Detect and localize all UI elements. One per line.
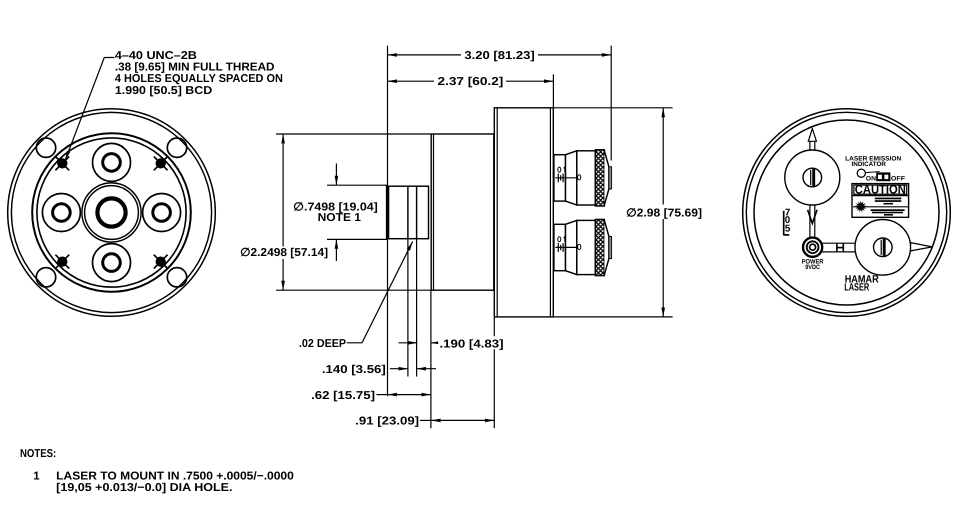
svg-text:[19,05 +0.013/−0.0] DIA HOLE.: [19,05 +0.013/−0.0] DIA HOLE.: [56, 482, 232, 494]
M1 tip: [609, 167, 612, 189]
counterbored hole D3 outer: [42, 194, 80, 232]
extension line housing diameter bottom: [553, 316, 672, 318]
micrometer M2: [554, 219, 612, 275]
counterbored hole D1 outer: [93, 143, 131, 181]
pilot groove left edge: [407, 186, 409, 239]
caution label box: [852, 184, 909, 218]
micrometer M1: [554, 150, 612, 206]
dimension .140 arrows: [390, 368, 408, 370]
dimension 2.37 line: [388, 80, 554, 82]
svg-text:.190 [4.83]: .190 [4.83]: [440, 338, 504, 350]
dimension dia 2.98 line: [662, 108, 664, 317]
mount cylinder outline: [431, 134, 494, 290]
extension line groove left: [407, 239, 409, 377]
flange outer circle inner line: [11, 112, 211, 312]
svg-text:1.990 [50.5] BCD: 1.990 [50.5] BCD: [115, 85, 212, 97]
extension line mount diameter top: [276, 133, 431, 135]
tapped hole 4-40 T3: [55, 255, 69, 269]
extension line housing right face: [552, 74, 554, 108]
svg-text:9VDC: 9VDC: [805, 264, 820, 271]
svg-text:.140 [3.56]: .140 [3.56]: [322, 364, 386, 376]
dimension .91 line: [420, 419, 431, 421]
M1 stem: [554, 155, 566, 201]
clearance hole E3: [36, 268, 55, 287]
flange outer circle: [8, 109, 216, 317]
center bore thick ring: [97, 198, 125, 226]
svg-text:1: 1: [33, 471, 40, 483]
dimension dia 2.2498 line: [282, 134, 284, 290]
extension line pilot left face: [387, 46, 389, 187]
extension line knob tip: [610, 46, 612, 161]
clearance hole E4: [167, 268, 186, 287]
laser emission indicator LED: [857, 169, 865, 177]
letter V marker: [808, 210, 818, 224]
M2 barrel digits 0 1: [558, 237, 565, 242]
model marking 705 bracket: [784, 211, 790, 236]
counterbored hole D4 outer: [143, 194, 181, 232]
rear knob upper (vertical adjuster): [785, 150, 840, 205]
M1 end cap: [604, 151, 609, 205]
counterbored hole D4 inner: [153, 204, 171, 222]
clearance hole E1: [36, 138, 55, 157]
letter H marker: [837, 243, 843, 252]
extension line housing diameter top: [553, 107, 672, 109]
M2 graduation ticks: [557, 243, 559, 252]
mount cylinder face line: [433, 134, 435, 290]
pilot shaft left face thick edge: [386, 186, 389, 239]
rear knob lower (horizontal adjuster): [855, 220, 911, 276]
svg-text:INDICATOR: INDICATOR: [852, 161, 887, 168]
center bore chamfer circle: [85, 186, 139, 240]
svg-text:.38 [9.65] MIN FULL THREAD: .38 [9.65] MIN FULL THREAD: [115, 62, 275, 74]
main housing outline: [494, 108, 553, 317]
M2 thimble digit 0: [578, 244, 581, 249]
left view: mount flange front: [8, 109, 216, 317]
counterbored hole D3 inner: [53, 204, 71, 222]
extension line groove right: [416, 239, 418, 377]
M1 barrel digits 0 1: [558, 167, 565, 172]
dimension dia .7498 arrows: [335, 164, 337, 186]
M1 knurled ratchet: [595, 150, 604, 206]
lower knob slot: [880, 240, 882, 255]
side view: laser body section: [387, 108, 554, 317]
LED pointer line: [865, 172, 879, 173]
svg-text:.62 [15.75]: .62 [15.75]: [311, 390, 375, 402]
dimension .190 text: [438, 336, 506, 349]
svg-text:NOTE 1: NOTE 1: [318, 212, 362, 224]
svg-text:LASER: LASER: [844, 281, 869, 293]
dimension .62 line: [377, 394, 388, 396]
M2 knurled ratchet: [595, 219, 604, 275]
vertical adjust arrow up shaft: [810, 141, 815, 151]
extension line pilot diameter bottom: [327, 238, 388, 240]
pilot shaft outline: [387, 186, 429, 239]
body recess circle: [37, 138, 186, 287]
M2 end cap: [604, 221, 609, 275]
leader line to tapped hole T1: [65, 58, 114, 161]
M1 transition: [566, 151, 577, 205]
pilot groove right edge: [416, 186, 418, 239]
extension line housing left face: [493, 317, 495, 428]
vertical adjust arrowhead: [808, 129, 816, 142]
counterbored hole D1 inner: [103, 154, 121, 172]
lower knob screw circle: [874, 238, 893, 257]
svg-text:.91 [23.09]: .91 [23.09]: [355, 416, 419, 428]
caution starburst: [855, 201, 867, 213]
M1 thimble digit 0: [578, 175, 581, 180]
svg-text:4–40 UNC–2B: 4–40 UNC–2B: [115, 50, 197, 62]
svg-text:NOTES:: NOTES:: [20, 448, 56, 460]
upper knob slot: [810, 170, 812, 185]
svg-text:CAUTION: CAUTION: [855, 182, 906, 196]
rear outer circle: [743, 109, 951, 317]
caution title box: [854, 185, 907, 194]
rear outer circle inner line: [746, 112, 946, 312]
svg-text:∅2.98 [75.69]: ∅2.98 [75.69]: [626, 207, 702, 219]
M1 graduation ticks: [557, 174, 559, 183]
M2 transition: [566, 220, 577, 274]
svg-text:∅2.2498 [57.14]: ∅2.2498 [57.14]: [240, 247, 328, 259]
tapped hole 4-40 T2: [154, 157, 168, 171]
power jack outer circle: [803, 238, 822, 257]
horizontal adjust arrowhead: [911, 243, 933, 251]
caution fine print bars: [871, 198, 905, 216]
right view: rear face: [743, 109, 951, 317]
body silhouette circle: [32, 133, 191, 292]
caution divider: [852, 195, 909, 197]
counterbored hole D2 outer: [93, 244, 131, 282]
svg-text:ON: ON: [866, 175, 877, 182]
svg-text:4 HOLES EQUALLY SPACED ON: 4 HOLES EQUALLY SPACED ON: [115, 73, 283, 85]
extension line mount left face: [430, 290, 432, 428]
power jack pin: [810, 244, 816, 250]
extension line pilot diameter top: [327, 184, 388, 186]
tapped hole 4-40 T4: [154, 255, 168, 269]
main housing left face line: [496, 108, 498, 317]
horizontal shaft from jack: [822, 243, 855, 252]
rear face circle: [754, 120, 939, 305]
M1 thimble body: [577, 151, 596, 205]
svg-text:.02 DEEP: .02 DEEP: [299, 338, 347, 350]
M1 graduation index line: [555, 174, 576, 183]
M2 graduation index line: [555, 243, 576, 252]
upper knob screw circle: [803, 168, 822, 187]
clearance hole E2: [167, 138, 186, 157]
main housing right face line: [549, 108, 551, 317]
vertical shaft below knob: [810, 204, 815, 242]
counterbored hole D2 inner: [103, 254, 121, 272]
M2 tip: [609, 236, 612, 258]
leader .02 deep: [347, 242, 413, 343]
M2 stem: [554, 224, 566, 270]
extension line mount diameter bottom: [276, 289, 431, 291]
svg-text:LASER TO MOUNT IN .7500 +.0005: LASER TO MOUNT IN .7500 +.0005/−.0000: [56, 471, 294, 483]
caution beam line: [853, 206, 909, 208]
dimension 3.20 line: [388, 54, 612, 56]
dimension .190 arrows: [399, 342, 418, 344]
power jack ring: [807, 241, 819, 253]
power switch: [876, 172, 890, 181]
svg-text:3.20 [81.23]: 3.20 [81.23]: [464, 50, 535, 62]
svg-text:2.37 [60.2]: 2.37 [60.2]: [438, 76, 504, 88]
svg-text:5: 5: [785, 223, 791, 234]
tapped hole 4-40 T1: [55, 157, 69, 171]
center bore outer circle: [82, 183, 141, 242]
M2 thimble body: [577, 220, 596, 274]
